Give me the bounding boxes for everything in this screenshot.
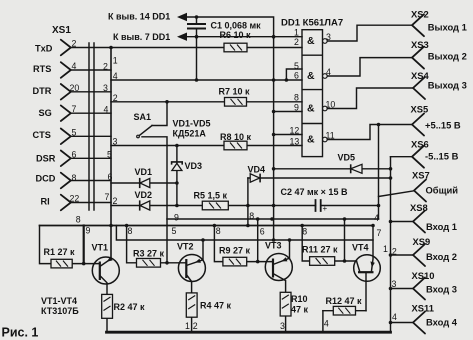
svg-text:5: 5 (294, 61, 299, 71)
svg-text:4: 4 (392, 312, 397, 322)
svg-text:R12 47 к: R12 47 к (326, 296, 363, 306)
svg-text:8: 8 (249, 211, 254, 221)
svg-text:2: 2 (294, 37, 299, 47)
svg-text:2: 2 (113, 93, 118, 103)
svg-text:DSR: DSR (36, 154, 56, 164)
svg-text:+5..15 В: +5..15 В (425, 120, 461, 131)
svg-text:R10: R10 (291, 294, 308, 304)
svg-text:VD4: VD4 (248, 164, 266, 174)
svg-text:3: 3 (392, 279, 397, 289)
svg-text:VD1: VD1 (135, 167, 153, 177)
svg-text:8: 8 (216, 226, 221, 236)
svg-text:RI: RI (41, 197, 50, 207)
svg-text:R3 27 к: R3 27 к (133, 249, 165, 259)
svg-text:VD3: VD3 (185, 161, 203, 171)
svg-text:R4 47 к: R4 47 к (200, 300, 232, 310)
svg-text:2: 2 (72, 39, 77, 49)
svg-text:7: 7 (377, 228, 382, 238)
svg-text:RTS: RTS (33, 64, 51, 74)
svg-text:К выв. 14 DD1: К выв. 14 DD1 (108, 12, 170, 22)
svg-text:4: 4 (113, 71, 118, 81)
svg-text:VT2: VT2 (177, 242, 194, 252)
svg-text:13: 13 (290, 137, 300, 147)
svg-text:8: 8 (128, 226, 133, 236)
svg-text:9: 9 (294, 103, 299, 113)
svg-text:2: 2 (103, 62, 108, 72)
svg-text:22: 22 (70, 193, 80, 203)
svg-text:+: + (323, 204, 328, 213)
svg-text:&: & (307, 134, 315, 146)
svg-text:DCD: DCD (36, 174, 56, 184)
svg-text:7: 7 (105, 192, 110, 202)
svg-text:20: 20 (70, 83, 80, 93)
svg-text:DD1 К561ЛА7: DD1 К561ЛА7 (281, 18, 343, 29)
svg-text:XS8: XS8 (410, 202, 428, 213)
svg-text:VT1: VT1 (92, 243, 109, 253)
svg-text:9: 9 (174, 212, 179, 222)
svg-text:VT3: VT3 (265, 241, 282, 251)
svg-text:Вход 4: Вход 4 (426, 317, 458, 328)
svg-text:XS7: XS7 (412, 170, 430, 181)
svg-text:8: 8 (302, 227, 307, 237)
svg-text:12: 12 (290, 126, 300, 136)
svg-text:R11 27 к: R11 27 к (302, 244, 338, 254)
svg-text:&: & (307, 70, 315, 82)
svg-text:2: 2 (193, 321, 198, 331)
svg-text:8: 8 (294, 93, 299, 103)
svg-text:5: 5 (107, 150, 112, 160)
svg-text:6: 6 (72, 149, 77, 159)
svg-text:4: 4 (104, 104, 109, 114)
svg-text:4: 4 (72, 61, 77, 71)
svg-text:SG: SG (39, 108, 52, 118)
svg-text:DTR: DTR (33, 86, 52, 96)
svg-text:R5 1,5 к: R5 1,5 к (194, 190, 228, 200)
svg-text:4: 4 (324, 319, 329, 329)
svg-text:&: & (307, 103, 315, 115)
svg-text:XS9: XS9 (413, 236, 431, 247)
svg-text:XS3: XS3 (411, 39, 429, 50)
svg-text:-5..15 В: -5..15 В (425, 150, 459, 161)
svg-text:VT1-VT4: VT1-VT4 (41, 296, 77, 306)
svg-text:10: 10 (326, 100, 336, 110)
svg-text:1: 1 (113, 56, 118, 66)
svg-text:7: 7 (72, 104, 77, 114)
svg-text:3: 3 (280, 321, 285, 331)
svg-text:3: 3 (113, 136, 118, 146)
svg-text:11: 11 (326, 131, 335, 141)
svg-text:VD1-VD5: VD1-VD5 (173, 119, 211, 129)
svg-text:1: 1 (185, 321, 190, 331)
svg-text:VT4: VT4 (352, 243, 369, 253)
svg-text:R9 27 к: R9 27 к (219, 245, 251, 255)
svg-text:6: 6 (294, 71, 299, 81)
svg-text:&: & (307, 35, 315, 47)
svg-text:Рис. 1: Рис. 1 (2, 326, 39, 340)
svg-text:XS1: XS1 (52, 25, 71, 36)
svg-text:R1 27 к: R1 27 к (44, 247, 76, 257)
svg-text:Вход 2: Вход 2 (426, 251, 457, 262)
svg-text:2: 2 (113, 196, 118, 206)
svg-text:R6 10 к: R6 10 к (220, 30, 252, 40)
svg-text:2: 2 (392, 247, 397, 257)
svg-text:R2 47 к: R2 47 к (114, 302, 146, 312)
svg-text:4: 4 (374, 213, 379, 223)
svg-text:C2 47 мк × 15 В: C2 47 мк × 15 В (281, 187, 348, 197)
svg-text:1: 1 (383, 244, 388, 254)
svg-text:Общий: Общий (426, 185, 459, 196)
svg-text:КД521А: КД521А (173, 129, 207, 139)
svg-text:XS2: XS2 (411, 9, 429, 20)
svg-text:3: 3 (326, 32, 331, 42)
svg-text:8: 8 (76, 215, 81, 225)
svg-text:XS6: XS6 (411, 139, 429, 150)
svg-text:8: 8 (72, 173, 77, 183)
svg-text:SA1: SA1 (134, 112, 152, 122)
svg-text:VD5: VD5 (338, 153, 356, 163)
svg-text:XS5: XS5 (411, 103, 429, 114)
svg-text:1: 1 (294, 27, 299, 37)
svg-text:Выход 3: Выход 3 (428, 80, 467, 91)
svg-text:TxD: TxD (35, 44, 53, 54)
svg-text:6: 6 (108, 172, 113, 182)
svg-text:КТ3107Б: КТ3107Б (41, 306, 79, 316)
svg-text:Выход 2: Выход 2 (428, 51, 467, 62)
svg-text:Выход 1: Выход 1 (428, 21, 467, 32)
svg-text:3: 3 (103, 83, 108, 93)
svg-text:XS10: XS10 (412, 270, 435, 281)
svg-text:5: 5 (72, 127, 77, 137)
svg-text:XS11: XS11 (412, 303, 434, 314)
svg-text:VD2: VD2 (135, 190, 153, 200)
svg-text:R7 10 к: R7 10 к (219, 87, 251, 97)
svg-text:5: 5 (172, 226, 177, 236)
svg-text:R8 10 к: R8 10 к (220, 132, 252, 142)
svg-text:4: 4 (326, 67, 331, 77)
svg-text:Вход 3: Вход 3 (426, 284, 457, 295)
svg-text:CTS: CTS (33, 130, 51, 140)
svg-text:47 к: 47 к (291, 305, 309, 315)
svg-text:9: 9 (86, 225, 91, 235)
svg-text:6: 6 (260, 227, 265, 237)
svg-text:К выв. 7 DD1: К выв. 7 DD1 (113, 32, 170, 42)
svg-text:Вход 1: Вход 1 (426, 221, 457, 232)
